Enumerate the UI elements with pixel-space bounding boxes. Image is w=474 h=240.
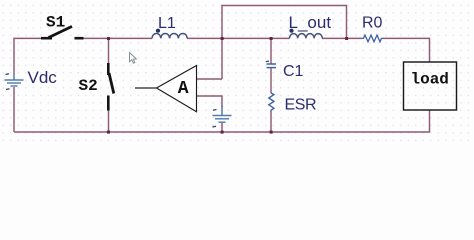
junction dot at bypass right drop xyxy=(345,37,348,40)
resistor R0 xyxy=(362,35,383,42)
wire: C1 branch from top rail junction down xyxy=(270,38,272,64)
amplifier A xyxy=(157,66,197,112)
inductor L1 xyxy=(152,34,187,39)
wire: amp upper output xyxy=(197,78,223,80)
svg-text:ESR: ESR xyxy=(285,97,317,114)
wire: R0 right, corner down into load xyxy=(383,38,430,62)
mouse cursor xyxy=(130,53,137,64)
wire: S2 branch vertical bottom xyxy=(108,110,110,132)
wire: between C1 and ESR xyxy=(270,68,272,93)
wire: left rail up and top rail to S1 left contact xyxy=(14,38,41,132)
svg-text:R0: R0 xyxy=(362,15,383,32)
Vdc polarity ticks xyxy=(6,73,10,76)
junction dot at ESR bottom rail xyxy=(270,131,273,134)
load box xyxy=(404,62,457,110)
svg-text:Vdc: Vdc xyxy=(28,68,58,87)
amp input stub xyxy=(135,87,157,89)
svg-text:C1: C1 xyxy=(283,63,304,80)
wire: bottom rail xyxy=(14,131,430,133)
svg-text:S2: S2 xyxy=(79,77,98,95)
switch S1 xyxy=(41,26,84,38)
wire: amp lower output to ground battery xyxy=(197,96,223,107)
wire: ground battery to bottom rail xyxy=(221,123,223,132)
L_out dot xyxy=(289,29,293,33)
resistor ESR xyxy=(269,93,274,112)
switch S2 xyxy=(108,63,114,111)
wire: S1 right contact to S2 junction to L1 xyxy=(83,37,152,39)
junction dot at S2 bottom rail xyxy=(107,131,110,134)
wire: L_out right to R0 xyxy=(322,37,362,39)
C1 polarity tick xyxy=(266,60,269,63)
capacitor C1 xyxy=(267,64,277,68)
junction dot at gnd bottom rail xyxy=(221,131,224,134)
ground battery (amp return) xyxy=(213,106,232,123)
wire: bypass riser at x=222 from top wire down to amp upper output xyxy=(222,6,347,80)
wire gap mask over left rail at Vdc battery plates xyxy=(13,74,15,88)
wire: S2 branch vertical top xyxy=(108,38,110,64)
L1 dot xyxy=(156,29,160,33)
svg-text:load: load xyxy=(411,71,449,89)
wire: L1 right to L_out left xyxy=(187,37,290,39)
gnd polarity ticks xyxy=(213,109,217,112)
junction dot at S2 top xyxy=(107,37,110,40)
wire: ESR to bottom rail xyxy=(270,112,272,133)
wire: load bottom to bottom rail xyxy=(429,110,431,132)
svg-text:L1: L1 xyxy=(158,15,176,32)
junction dot at bypass riser xyxy=(221,37,224,40)
Vdc source battery xyxy=(5,74,24,87)
svg-text:L_out: L_out xyxy=(289,13,332,32)
svg-text:A: A xyxy=(178,79,189,99)
junction dot at C1 branch xyxy=(270,37,273,40)
inductor L_out xyxy=(290,34,323,39)
svg-text:S1: S1 xyxy=(46,14,65,32)
